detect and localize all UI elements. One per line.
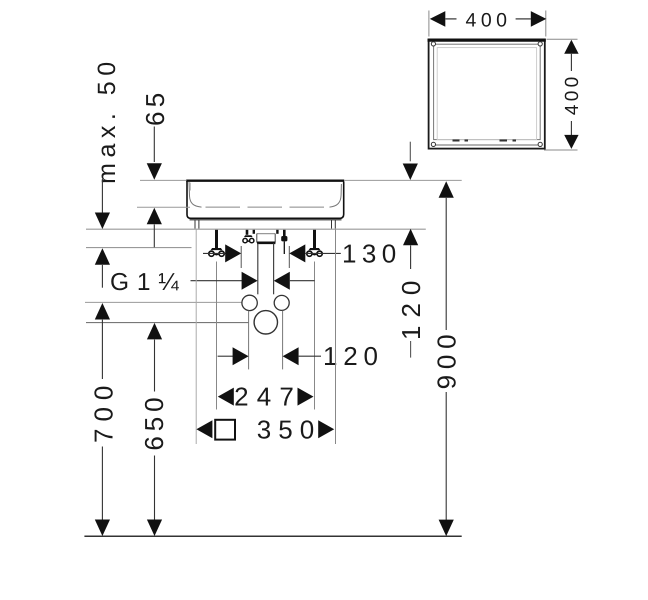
left mounting bolt [209,230,224,256]
drain left wing nut [243,235,254,243]
right supply extension line [282,311,284,370]
washbasin bowl bottom dashed line [206,206,325,208]
dimension 400 right [562,40,583,149]
top view square inner rim [434,44,541,145]
svg-text:400: 400 [562,73,583,115]
dimension 350 with square symbol [196,414,334,444]
dimension 400 top [430,9,547,31]
right bolt extension line [314,262,316,410]
left bolt extension line [216,262,218,410]
dim 350 extension lines [196,230,335,445]
dimension 120 horizontal [218,341,384,371]
mounting level line [86,228,426,230]
dimension 130 [203,238,402,268]
dimension 650 bottom arrow [147,456,162,537]
drain level line [86,322,249,324]
top view square outer [428,39,546,148]
rim top extension line left [140,179,187,181]
120 vertical tail [410,341,412,358]
top view corner fixings [431,42,542,147]
svg-text:130: 130 [342,238,402,268]
svg-text:400: 400 [465,9,511,31]
dimension 400 right extension lines [544,39,578,150]
dimension 700 bottom arrow [95,447,110,537]
svg-text:650: 650 [139,393,169,451]
drain right nut and pin [281,236,287,254]
dimension 900 bottom arrow [439,392,454,536]
drain fitting flange [247,230,284,243]
svg-text:700: 700 [89,379,119,443]
dimension 700 top arrow [95,303,110,379]
svg-text:65: 65 [140,89,170,126]
bowl depth extension line [137,206,190,208]
drain circle [254,311,277,334]
dimension 400 top extension lines [429,11,546,37]
washbasin inner bowl walls [189,182,341,207]
svg-text:900: 900 [432,329,462,390]
svg-text:max. 50: max. 50 [93,56,121,183]
top view drain tick marks [453,140,517,142]
right supply circle [274,295,289,310]
svg-text:G 1 ¼: G 1 ¼ [110,269,179,296]
svg-text:120: 120 [396,273,426,340]
washbasin front view outline [186,181,344,220]
max50 lower line [86,247,192,249]
right mounting bolt [307,230,322,256]
left supply extension line [248,311,250,370]
dimension 65 arrows [147,127,162,248]
dimension 120 vertical top arrow [403,142,418,180]
left supply circle [242,295,257,310]
svg-text:350: 350 [257,414,321,444]
svg-text:247: 247 [234,382,302,412]
svg-text:120: 120 [323,341,384,371]
washbasin right foot [332,220,336,229]
washbasin left foot [195,220,199,229]
rim top extension line right [345,179,462,181]
floor line [84,535,461,537]
dimension 650 top arrow [147,323,162,392]
dimension 120 vertical bottom arrow [403,229,418,269]
label G 1 1/4 [110,269,315,296]
dimension max50 arrows [95,179,110,288]
drain pipe lines [258,243,274,294]
dim 130 extension lines [241,246,289,268]
dimension 900 top arrow [439,181,454,330]
supply level line [85,301,242,303]
dimension 247 [218,382,314,412]
